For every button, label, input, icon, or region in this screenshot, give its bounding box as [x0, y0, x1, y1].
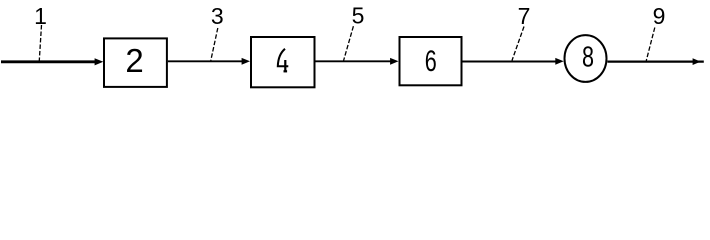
svg-text:5: 5 [352, 2, 365, 28]
svg-text:8: 8 [582, 42, 594, 74]
svg-text:1: 1 [34, 3, 47, 29]
svg-text:3: 3 [211, 3, 224, 29]
svg-text:9: 9 [653, 3, 666, 29]
svg-text:6: 6 [425, 45, 437, 78]
svg-text:2: 2 [125, 42, 143, 79]
svg-text:7: 7 [518, 3, 531, 29]
